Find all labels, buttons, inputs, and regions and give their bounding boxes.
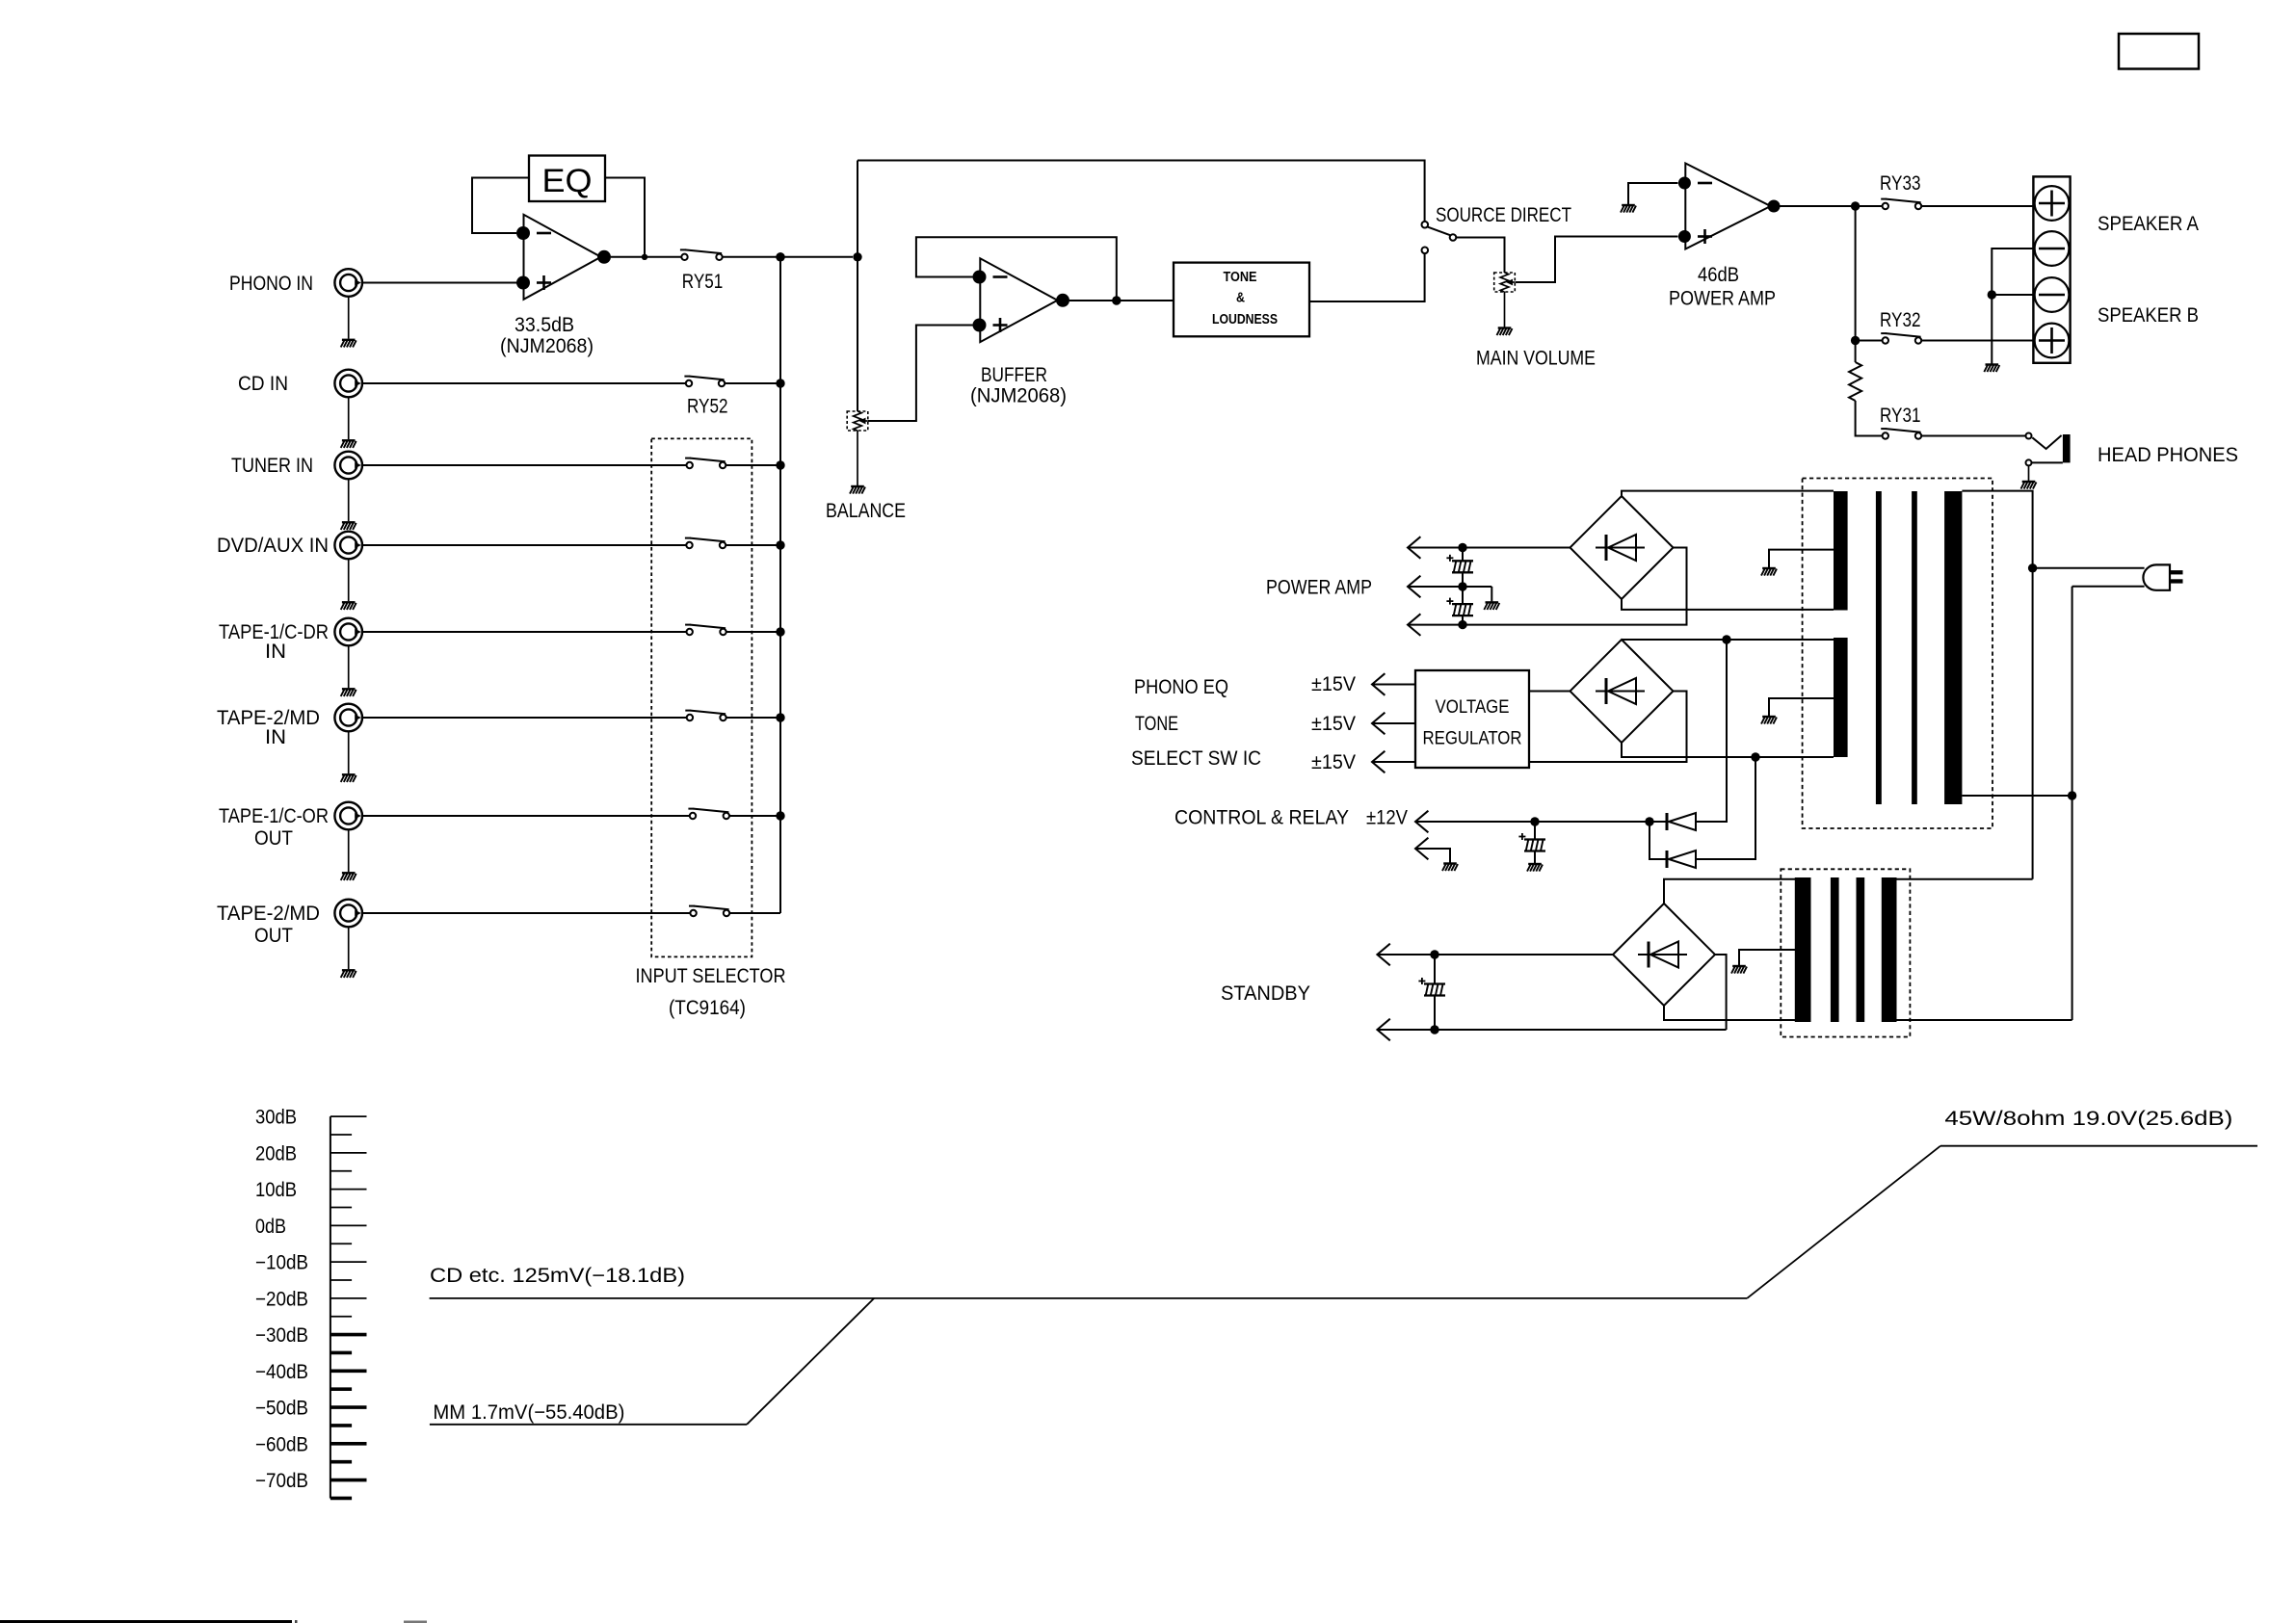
ground under DVD/AUX IN jack — [348, 559, 350, 601]
wire standby return rail — [1377, 1029, 1726, 1031]
terminal + speaker A — [2035, 186, 2070, 221]
bridge rectifier power amp — [1570, 496, 1674, 599]
wire selector TAPE-1 IN to bus — [726, 631, 780, 633]
scale minor tick — [330, 1206, 352, 1208]
wire minus junction to ground — [1991, 295, 1993, 364]
switch RY32 — [1881, 332, 1887, 334]
gain scale axis — [330, 1116, 331, 1498]
svg-text:STANDBY: STANDBY — [1221, 982, 1310, 1005]
ground under TAPE-2/MD jack — [348, 731, 350, 773]
svg-text:INPUT SELECTOR: INPUT SELECTOR — [636, 965, 786, 987]
wire D2 to transformer tap — [1696, 757, 1755, 859]
op-amp U51 (phono EQ 33.5dB) — [524, 215, 601, 300]
RCA jack TAPE-1/C-OR — [334, 802, 362, 830]
svg-text:LOUDNESS: LOUDNESS — [1212, 312, 1278, 327]
switch RY31 — [1881, 428, 1887, 430]
ground under TAPE-1/C-DR jack — [348, 645, 350, 688]
node AC line junction — [2028, 563, 2037, 572]
diode D1 12V positive — [1649, 821, 1667, 823]
input selector switch TAPE-1 IN — [685, 624, 691, 626]
scale minor tick — [330, 1134, 352, 1136]
wire TAPE-1 OUT jack to selector switch — [362, 815, 690, 817]
wire bridge3 right vertex to return — [1715, 955, 1727, 1030]
input selector switch TAPE-2 IN — [685, 710, 691, 712]
bridge rectifier 15V supply — [1570, 640, 1674, 743]
arrow 15V select sw — [1372, 751, 1385, 773]
RCA jack PHONO IN — [334, 269, 362, 297]
buffer feedback wire — [916, 237, 1117, 298]
op-amp + input pin — [516, 276, 530, 290]
wire speaker minus terminals common — [1992, 249, 2033, 295]
block VOLTAGE REGULATOR — [1415, 670, 1529, 768]
node AC neutral junction — [2068, 791, 2076, 799]
wire AC neutral down to standby primary — [2072, 587, 2073, 1020]
arrow 15V tone — [1372, 713, 1385, 735]
arrow 12V control relay — [1415, 811, 1428, 833]
block TONE & LOUDNESS — [1174, 263, 1309, 337]
CD to 45W diagonal — [1747, 1146, 1940, 1298]
wire standby primary bottom — [1897, 1019, 2072, 1021]
bus junction dot — [776, 379, 784, 387]
svg-text:−10dB: −10dB — [255, 1252, 308, 1274]
node EQ feedback junction — [642, 254, 647, 260]
terminal + speaker B — [2035, 324, 2070, 358]
svg-text:OUT: OUT — [254, 827, 293, 850]
switch RY51 — [680, 249, 686, 250]
wire D1 to transformer tap — [1696, 640, 1727, 822]
wire RY33 to speaker terminal — [1921, 205, 2033, 207]
svg-text:(NJM2068): (NJM2068) — [970, 385, 1067, 407]
scale minor tick — [330, 1316, 352, 1318]
bus junction dot — [776, 460, 784, 469]
arrow standby return — [1377, 1019, 1389, 1041]
wire junction down to RY32 — [1855, 206, 1857, 341]
svg-text:±15V: ±15V — [1311, 751, 1356, 773]
input selector switch TUNER — [685, 458, 691, 459]
wire TAPE-2 OUT jack to selector switch — [362, 912, 690, 914]
wire bridge2 top AC to transformer — [1622, 639, 1834, 641]
ground under 12V capacitor — [1527, 864, 1543, 872]
ground tap secondary 1 center — [1769, 550, 1834, 567]
wire regulator lower to bridge right — [1529, 692, 1687, 763]
svg-text:(NJM2068): (NJM2068) — [500, 335, 594, 357]
potentiometer MAIN VOLUME — [1494, 273, 1516, 292]
svg-text:EQ: EQ — [542, 163, 593, 199]
arrow +rail power amp supply — [1408, 537, 1420, 559]
power amp output pin — [1768, 200, 1781, 213]
wire 12V return to ground — [1415, 849, 1450, 863]
scale tick 10dB — [330, 1189, 367, 1191]
scale tick -10dB — [330, 1261, 367, 1263]
op-amp 46dB POWER AMP — [1685, 164, 1770, 249]
ground under TAPE-2/MD jack — [348, 927, 350, 969]
ground under TAPE-1/C-OR jack — [348, 829, 350, 872]
svg-text:±15V: ±15V — [1311, 673, 1356, 695]
wire selector TUNER to bus — [726, 464, 780, 466]
scale tick -60dB — [330, 1442, 367, 1446]
wire RY51 to bus junction — [723, 256, 853, 258]
svg-text:IN: IN — [265, 726, 286, 748]
svg-text:−20dB: −20dB — [255, 1288, 308, 1310]
svg-text:PHONO EQ: PHONO EQ — [1134, 676, 1228, 698]
scale tick -40dB — [330, 1370, 367, 1374]
RCA jack TUNER IN — [334, 452, 362, 480]
svg-text:SELECT SW IC: SELECT SW IC — [1131, 747, 1261, 770]
svg-text:OUT: OUT — [254, 925, 293, 947]
bus junction dot — [776, 713, 784, 721]
svg-text:IN: IN — [265, 641, 286, 663]
svg-text:DVD/AUX IN: DVD/AUX IN — [217, 535, 329, 557]
op-amp U1 BUFFER — [980, 258, 1057, 342]
svg-text:RY32: RY32 — [1880, 309, 1921, 331]
speaker terminal block — [2033, 176, 2070, 362]
wire source direct to main volume — [1456, 238, 1504, 274]
svg-text:45W/8ohm 19.0V(25.6dB): 45W/8ohm 19.0V(25.6dB) — [1944, 1108, 2232, 1130]
wire TAPE-1 IN jack to selector switch — [362, 631, 687, 633]
svg-text:POWER AMP: POWER AMP — [1669, 288, 1776, 310]
switch RY52 — [684, 376, 690, 378]
node source-direct tap — [853, 252, 861, 261]
terminal - speaker A — [2035, 231, 2070, 266]
ground under balance pot — [857, 431, 858, 485]
wire -rail to bridge right vertex — [1408, 548, 1687, 625]
bus junction dot — [776, 252, 784, 261]
svg-text:−50dB: −50dB — [255, 1398, 308, 1420]
svg-text:30dB: 30dB — [255, 1107, 297, 1129]
svg-text:SPEAKER A: SPEAKER A — [2098, 213, 2199, 235]
input selector switch DVD/AUX — [685, 537, 691, 539]
main transformer core bars — [1876, 491, 1882, 804]
scale minor tick — [330, 1460, 352, 1464]
wire bridge3 bottom AC — [1664, 1006, 1795, 1020]
wire resistor to RY31 — [1856, 401, 1883, 436]
potentiometer BALANCE — [847, 411, 868, 431]
svg-text:0dB: 0dB — [255, 1216, 286, 1238]
buffer output pin — [1056, 294, 1069, 307]
node main bus top — [776, 252, 784, 261]
svg-text:−30dB: −30dB — [255, 1324, 308, 1347]
wire TAPE-2 IN jack to selector switch — [362, 717, 687, 719]
wire power amp - input to ground — [1628, 183, 1678, 204]
buffer - input pin — [973, 271, 987, 284]
EQ feedback box — [529, 156, 605, 202]
wire buffer output to tone block — [1069, 300, 1174, 301]
svg-text:BUFFER: BUFFER — [981, 364, 1047, 386]
MM level line — [430, 1424, 747, 1426]
svg-text:CD IN: CD IN — [238, 373, 288, 395]
bus junction dot — [776, 540, 784, 549]
svg-text:TAPE-1/C-OR: TAPE-1/C-OR — [219, 805, 329, 827]
svg-text:±12V: ±12V — [1366, 807, 1408, 829]
scale tick 0dB — [330, 1224, 367, 1226]
ground at power amp - input — [1621, 205, 1636, 213]
RCA jack TAPE-2/MD — [334, 704, 362, 732]
wire tone block output to source direct switch — [1309, 253, 1425, 301]
wire 0V to ground — [1491, 587, 1492, 601]
ground tap secondary 2 center — [1769, 698, 1834, 716]
svg-text:10dB: 10dB — [255, 1179, 297, 1201]
svg-text:TONE: TONE — [1224, 270, 1257, 285]
svg-text:HEAD PHONES: HEAD PHONES — [2098, 444, 2238, 466]
wire DVD/AUX jack to selector switch — [362, 544, 686, 546]
bus junction dot — [776, 811, 784, 820]
arrow standby + — [1377, 944, 1389, 966]
svg-text:TUNER IN: TUNER IN — [231, 455, 313, 477]
MM to CD diagonal — [747, 1298, 874, 1425]
node speaker minus junction — [1988, 290, 1996, 299]
wire RY31 to headphone jack — [1921, 435, 2025, 437]
capacitor power amp - rail — [1462, 587, 1464, 604]
wire EQ box right to output node — [605, 178, 645, 255]
svg-text:33.5dB: 33.5dB — [515, 314, 574, 336]
svg-text:±15V: ±15V — [1311, 713, 1356, 735]
wire junction to RY32 — [1856, 340, 1883, 342]
diode D2 12V negative — [1666, 851, 1669, 868]
buffer + input pin — [973, 319, 987, 332]
wire CD IN to RY52 — [362, 382, 686, 384]
bridge rectifier standby — [1613, 903, 1715, 1006]
bus junction dot — [776, 627, 784, 636]
wire standby primary top — [1897, 878, 2033, 880]
svg-text:46dB: 46dB — [1698, 264, 1739, 286]
svg-text:VOLTAGE: VOLTAGE — [1436, 697, 1510, 718]
svg-text:CONTROL & RELAY: CONTROL & RELAY — [1174, 807, 1349, 829]
wire tap down to balance pot — [857, 161, 858, 412]
node 12V tap on bridge2 top AC — [1722, 635, 1730, 643]
wire selector TAPE-2 IN to bus — [726, 717, 780, 719]
ground under main volume pot — [1504, 292, 1506, 327]
ground tap standby secondary — [1739, 950, 1795, 965]
CD level line — [430, 1297, 1748, 1299]
standby transformer primary winding bar — [1882, 877, 1897, 1022]
terminal - speaker B — [2035, 277, 2070, 312]
headphone jack sleeve contact — [2026, 459, 2032, 465]
node speaker feed junction — [1851, 201, 1860, 210]
svg-text:POWER AMP: POWER AMP — [1266, 577, 1372, 599]
wire AC plug top lead — [2033, 567, 2145, 569]
svg-text:−70dB: −70dB — [255, 1470, 308, 1492]
wire EQ output to RY51 — [611, 256, 681, 258]
AC power plug — [2143, 564, 2170, 589]
svg-text:TAPE-2/MD: TAPE-2/MD — [217, 903, 320, 925]
switch SOURCE DIRECT — [1422, 222, 1429, 228]
ground at headphone sleeve — [2028, 466, 2030, 481]
wire bridge2 bottom AC to transformer — [1622, 743, 1834, 757]
RCA jack TAPE-1/C-DR — [334, 618, 362, 646]
node buffer output junction — [1112, 296, 1121, 304]
resistor headphone dropping — [1855, 341, 1857, 363]
wire RY52 to bus — [725, 382, 780, 384]
wire bridge top AC to transformer — [1622, 491, 1834, 496]
wire main volume wiper to power amp + input — [1516, 237, 1678, 283]
main transformer secondary 1 winding bar — [1834, 491, 1848, 611]
RCA jack DVD/AUX IN — [334, 532, 362, 560]
node RY32 junction — [1851, 336, 1860, 345]
wire power amp output to RY33 — [1780, 205, 1883, 207]
bottom scan bar — [0, 1620, 292, 1623]
capacitor 12V rail — [1534, 822, 1536, 840]
svg-text:PHONO IN: PHONO IN — [229, 273, 313, 295]
wire PHONO IN to EQ amp + input — [362, 282, 517, 284]
svg-text:CD etc. 125mV(−18.1dB): CD etc. 125mV(−18.1dB) — [430, 1265, 685, 1287]
scale tick -70dB — [330, 1479, 367, 1482]
svg-text:20dB: 20dB — [255, 1142, 297, 1165]
wire EQ box left to - input — [472, 178, 529, 234]
scale tick -50dB — [330, 1405, 367, 1409]
power amp + input pin — [1678, 230, 1691, 243]
wire minus junction to speaker B minus — [1992, 294, 2033, 296]
RCA jack CD IN — [334, 370, 362, 398]
RCA jack TAPE-2/MD — [334, 900, 362, 928]
svg-text:REGULATOR: REGULATOR — [1423, 729, 1522, 749]
selector output bus wire — [779, 257, 781, 913]
op-amp output pin — [597, 250, 611, 264]
wire +rail to bridge — [1408, 547, 1570, 549]
wire primary bottom tap — [1962, 795, 2072, 797]
svg-text:−40dB: −40dB — [255, 1361, 308, 1383]
wire primary top tap to AC plug — [1962, 491, 2032, 879]
wire RY32 to speaker terminal — [1921, 340, 2033, 342]
headphone jack body — [2063, 434, 2071, 462]
standby transformer core bars — [1831, 877, 1839, 1022]
standby transformer dashed box — [1781, 869, 1910, 1036]
revision box (top right) — [2119, 34, 2199, 69]
wire bridge3 top AC — [1664, 879, 1795, 903]
scale minor tick — [330, 1387, 352, 1391]
capacitor standby — [1434, 955, 1436, 984]
scale minor tick — [330, 1279, 352, 1281]
input selector switch TAPE-1 OUT — [688, 808, 694, 810]
wire selector TAPE-2 OUT to bus — [729, 912, 780, 914]
wire selector DVD/AUX to bus — [726, 544, 780, 546]
scale tick -30dB — [330, 1333, 367, 1337]
scale minor tick — [330, 1243, 352, 1244]
ground under PHONO IN jack — [348, 297, 350, 339]
headphone jack tip contact — [2026, 433, 2032, 439]
wire balance wiper to buffer + input — [868, 326, 973, 422]
svg-text:RY33: RY33 — [1880, 172, 1921, 195]
svg-text:SOURCE DIRECT: SOURCE DIRECT — [1436, 204, 1571, 226]
wire 12V rail — [1415, 821, 1650, 823]
wire bridge bottom AC to transformer — [1622, 599, 1834, 610]
svg-text:&: & — [1236, 291, 1245, 306]
svg-text:RY51: RY51 — [682, 271, 724, 293]
svg-text:SPEAKER B: SPEAKER B — [2098, 304, 2199, 327]
arrow -rail power amp supply — [1408, 614, 1420, 636]
arrow 15V phono eq — [1372, 673, 1385, 695]
svg-text:RY31: RY31 — [1880, 405, 1921, 427]
svg-text:(TC9164): (TC9164) — [669, 997, 746, 1019]
arrow 0V power amp supply — [1408, 576, 1420, 598]
svg-text:BALANCE: BALANCE — [826, 500, 906, 522]
svg-text:−60dB: −60dB — [255, 1433, 308, 1455]
main transformer secondary 2 winding bar — [1834, 638, 1848, 757]
ground under TUNER IN jack — [348, 479, 350, 521]
input selector dashed box (TC9164) — [651, 438, 752, 956]
scale minor tick — [330, 1424, 352, 1427]
standby transformer secondary winding bar — [1795, 877, 1811, 1022]
wire 0V rail — [1408, 586, 1491, 588]
svg-text:MM 1.7mV(−55.40dB): MM 1.7mV(−55.40dB) — [433, 1401, 624, 1424]
arrow 12V return — [1415, 838, 1428, 860]
input selector switch TAPE-2 OUT — [689, 905, 695, 907]
wire 12V negative branch — [1649, 822, 1667, 859]
main transformer dashed box — [1803, 479, 1993, 829]
switch RY33 — [1881, 198, 1887, 200]
wire regulator input from bridge — [1529, 691, 1570, 693]
main transformer primary winding bar — [1944, 491, 1962, 804]
scale tick 30dB — [330, 1115, 367, 1117]
scale tick -20dB — [330, 1297, 367, 1299]
svg-text:TONE: TONE — [1135, 713, 1178, 735]
svg-text:MAIN VOLUME: MAIN VOLUME — [1476, 348, 1596, 370]
scale minor tick — [330, 1170, 352, 1172]
wire source direct bypass (top) — [858, 161, 1425, 222]
scale minor tick — [330, 1351, 352, 1355]
ground under CD IN jack — [348, 397, 350, 439]
power amp - input pin — [1678, 177, 1691, 190]
scale tick 20dB — [330, 1152, 367, 1154]
scale minor tick — [330, 1497, 352, 1501]
svg-text:RY52: RY52 — [687, 396, 728, 418]
wire standby + rail — [1377, 954, 1613, 955]
op-amp - input pin — [516, 226, 530, 240]
node 12V tap on bridge2 bottom AC — [1751, 752, 1759, 761]
wire selector TAPE-1 OUT to bus — [729, 815, 780, 817]
45W level line — [1940, 1145, 2257, 1147]
capacitor power amp + rail — [1462, 548, 1464, 562]
wire AC plug bottom lead — [2072, 586, 2145, 588]
wire TUNER jack to selector switch — [362, 464, 687, 466]
